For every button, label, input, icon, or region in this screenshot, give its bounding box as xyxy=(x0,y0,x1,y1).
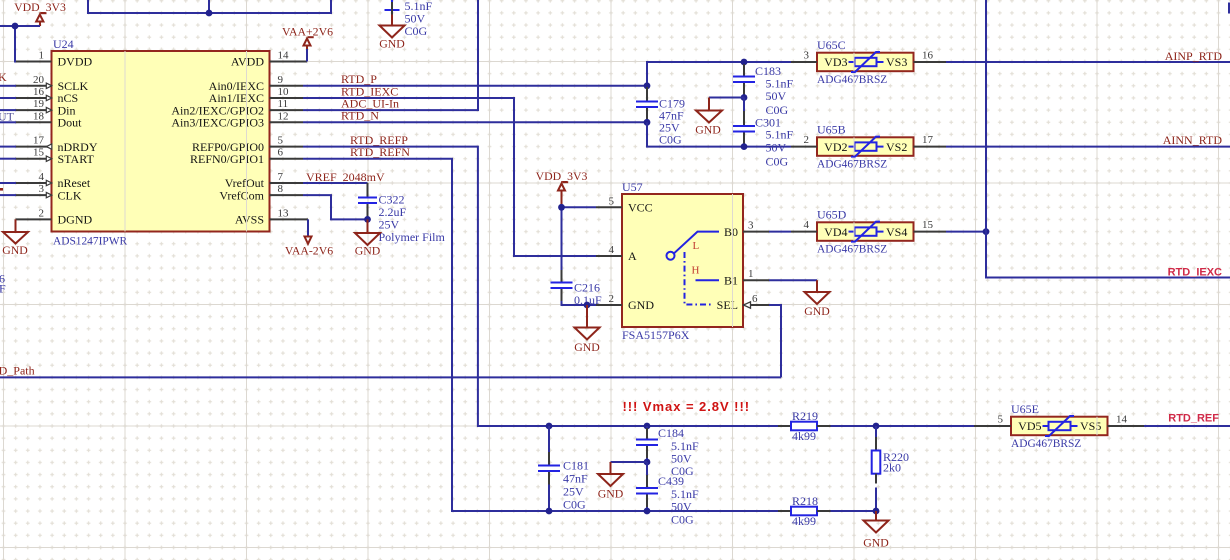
junction C183/C301 midpoint xyxy=(741,94,748,101)
junction RTD_N at C179 xyxy=(644,119,651,126)
svg-text:B1: B1 xyxy=(724,273,738,287)
analog switch U65D ADG467BRSZ xyxy=(804,207,934,255)
svg-text:GND: GND xyxy=(379,37,405,51)
svg-text:5: 5 xyxy=(998,414,1004,426)
svg-text:VS4: VS4 xyxy=(886,225,907,239)
svg-text:15: 15 xyxy=(922,219,934,231)
wire VDD to U57 VCC xyxy=(562,207,597,281)
svg-text:GND: GND xyxy=(574,340,600,354)
svg-text:C0G: C0G xyxy=(563,498,586,512)
svg-text:VS2: VS2 xyxy=(886,140,907,154)
pin wires U65D xyxy=(791,231,946,233)
svg-text:12: 12 xyxy=(278,110,289,122)
junction C181 bottom xyxy=(546,508,553,515)
wire R219 to U65E xyxy=(831,425,975,427)
svg-text:2k0: 2k0 xyxy=(883,461,901,475)
wire RTD_Path xyxy=(0,376,781,378)
svg-text:VDD_3V3: VDD_3V3 xyxy=(536,169,588,183)
junction on VDD_3V3 wire xyxy=(12,23,19,30)
wire fragment top right corner xyxy=(1228,3,1230,14)
analog switch U65C ADG467BRSZ xyxy=(804,38,934,86)
svg-text:C439: C439 xyxy=(658,474,684,488)
svg-text:REFN0/GPIO1: REFN0/GPIO1 xyxy=(190,152,264,166)
junction C439 bottom xyxy=(644,508,651,515)
ground GND (U57 B1) xyxy=(804,280,830,318)
svg-text:RTD_N: RTD_N xyxy=(341,109,379,123)
wire RTD_P up to U65C xyxy=(647,62,791,86)
svg-text:C0G: C0G xyxy=(671,513,694,527)
resistor R220 2k0 xyxy=(872,426,909,511)
svg-text:VAA-2V6: VAA-2V6 xyxy=(285,244,333,258)
svg-text:UT: UT xyxy=(0,110,15,124)
svg-text:R218: R218 xyxy=(792,494,818,508)
svg-text:13: 13 xyxy=(278,207,290,219)
svg-text:20: 20 xyxy=(33,74,45,86)
ground GND (C322) xyxy=(355,219,381,257)
svg-text:GND: GND xyxy=(598,487,624,501)
pin wires U65E xyxy=(974,425,1144,427)
junction RTD_IEXC column xyxy=(983,228,990,235)
capacitor C216 0.1uF xyxy=(551,270,603,307)
junction R219/R220 xyxy=(873,423,880,430)
svg-text:5: 5 xyxy=(609,195,615,207)
svg-text:3: 3 xyxy=(804,50,810,62)
svg-text:6: 6 xyxy=(278,147,284,159)
svg-text:C184: C184 xyxy=(658,426,684,440)
svg-text:ADS1247IPWR: ADS1247IPWR xyxy=(53,236,127,248)
svg-text:K: K xyxy=(0,70,7,84)
svg-text:VCC: VCC xyxy=(628,201,653,215)
svg-text:C181: C181 xyxy=(563,459,589,473)
svg-text:8: 8 xyxy=(278,183,284,195)
svg-text:GND: GND xyxy=(2,243,28,257)
pin wires U65B xyxy=(791,146,946,148)
svg-text:2: 2 xyxy=(609,293,615,305)
svg-text:GND: GND xyxy=(628,298,654,312)
junction R218/R220/GND xyxy=(873,508,880,515)
svg-text:VD5: VD5 xyxy=(1018,419,1041,433)
junction at C183 top xyxy=(741,59,748,66)
svg-text:U24: U24 xyxy=(53,37,74,51)
wire U57 B1 to ground xyxy=(769,279,817,281)
svg-text:9: 9 xyxy=(278,74,284,86)
svg-text:Polymer Film: Polymer Film xyxy=(379,230,446,244)
wire RTD_P xyxy=(303,85,647,87)
wire RTD_N xyxy=(303,121,647,123)
svg-text:SEL: SEL xyxy=(717,298,738,312)
wire R218 to R220 xyxy=(831,510,877,512)
svg-text:GND: GND xyxy=(355,244,381,258)
junction C184/C439 midpoint xyxy=(644,459,651,466)
svg-text:3: 3 xyxy=(748,220,754,232)
IC U24 ADS1247IPWR body xyxy=(16,37,309,248)
svg-text:5.1nF: 5.1nF xyxy=(766,128,794,142)
svg-text:25V: 25V xyxy=(563,485,584,499)
svg-text:GND: GND xyxy=(695,123,721,137)
capacitor C439 5.1nF xyxy=(636,462,699,527)
svg-text:14: 14 xyxy=(278,50,290,62)
wire AINN_RTD xyxy=(946,146,1230,148)
svg-text:6: 6 xyxy=(752,293,758,305)
svg-text:1: 1 xyxy=(748,268,754,280)
wire VrefOut to C322 xyxy=(303,182,368,184)
svg-text:50V: 50V xyxy=(766,89,787,103)
svg-text:GND: GND xyxy=(863,536,889,550)
wire C183 branch xyxy=(743,62,745,76)
junction RTD_P at C179 xyxy=(644,82,651,89)
junction on top wire xyxy=(206,10,213,17)
capacitor (cropped, 5.1nF 50V C0G) xyxy=(385,0,433,38)
svg-text:16: 16 xyxy=(922,50,934,62)
svg-text:VDD_3V3: VDD_3V3 xyxy=(14,0,66,14)
svg-text:3: 3 xyxy=(39,183,45,195)
svg-text:H: H xyxy=(692,265,700,277)
junction C184 top xyxy=(644,423,651,430)
svg-text:U65D: U65D xyxy=(817,207,847,221)
svg-text:VD4: VD4 xyxy=(824,225,847,239)
svg-text:R219: R219 xyxy=(792,409,818,423)
svg-text:1: 1 xyxy=(39,50,45,62)
svg-text:15: 15 xyxy=(33,147,45,159)
junction at C322 bottom xyxy=(364,216,371,223)
svg-text:11: 11 xyxy=(278,98,289,110)
svg-text:AINN_RTD: AINN_RTD xyxy=(1163,133,1223,147)
svg-text:C0G: C0G xyxy=(405,24,428,38)
svg-text:Ain3/IEXC/GPIO3: Ain3/IEXC/GPIO3 xyxy=(171,116,264,130)
svg-text:L: L xyxy=(693,240,700,252)
svg-text:DVDD: DVDD xyxy=(58,55,93,69)
svg-text:17: 17 xyxy=(33,135,45,147)
svg-text:ADG467BRSZ: ADG467BRSZ xyxy=(817,158,887,170)
power port VAA+2V6 xyxy=(282,25,333,62)
svg-text:5: 5 xyxy=(278,135,284,147)
IC U57 FSA5157P6X body xyxy=(596,180,769,342)
wire top net (cropped U shape) xyxy=(88,0,331,13)
svg-text:4: 4 xyxy=(804,219,810,231)
pin wires U65C xyxy=(791,61,946,63)
svg-text:16: 16 xyxy=(33,86,45,98)
wire RTD_IEXC to U57 A xyxy=(303,98,599,256)
svg-text:START: START xyxy=(58,152,95,166)
wire ADC_UI-In xyxy=(303,0,478,110)
svg-text:AVSS: AVSS xyxy=(235,213,264,227)
svg-text:AVDD: AVDD xyxy=(231,55,264,69)
capacitor C179 47nF xyxy=(636,87,685,147)
svg-text:U65B: U65B xyxy=(817,122,846,136)
wire RTD_N down to U65B xyxy=(647,122,791,146)
svg-text:ADG467BRSZ: ADG467BRSZ xyxy=(817,243,887,255)
junction C301 bottom xyxy=(741,143,748,150)
svg-text:4: 4 xyxy=(609,244,615,256)
capacitor C181 47nF xyxy=(538,426,589,512)
svg-text:FSA5157P6X: FSA5157P6X xyxy=(622,328,690,342)
junction U57 GND xyxy=(584,302,591,309)
svg-text:B0: B0 xyxy=(724,225,738,239)
wire U57 SEL to RTD_Path xyxy=(769,305,781,377)
power port VAA-2V6 xyxy=(285,219,333,257)
capacitor C184 5.1nF xyxy=(636,426,699,478)
power port VDD_3V3 (U57) xyxy=(536,169,588,207)
svg-text:VS3: VS3 xyxy=(886,55,907,69)
ground GND (top capacitor) xyxy=(379,15,405,51)
ground GND (C184/C439) xyxy=(598,462,647,501)
wire stubs to U24 left pins xyxy=(0,86,16,195)
svg-text:VD2: VD2 xyxy=(824,140,847,154)
junction C181 top xyxy=(546,423,553,430)
svg-text:14: 14 xyxy=(1116,414,1128,426)
svg-text:4k99: 4k99 xyxy=(792,514,816,528)
svg-text:RTD_IEXC: RTD_IEXC xyxy=(1168,267,1222,279)
svg-text:U65E: U65E xyxy=(1011,402,1039,416)
svg-text:VrefCom: VrefCom xyxy=(219,188,264,202)
wire RTD_REFN down xyxy=(303,159,778,511)
capacitor C322 2.2uF xyxy=(358,183,446,244)
svg-text:A: A xyxy=(628,249,637,263)
svg-text:ADG467BRSZ: ADG467BRSZ xyxy=(1011,438,1081,450)
capacitor C301 5.1nF xyxy=(733,98,794,169)
ground GND (reference divider) xyxy=(863,511,889,550)
wire RTD_REFP down to reference chain xyxy=(303,147,778,426)
svg-text:18: 18 xyxy=(33,110,45,122)
resistor R218 4k99 xyxy=(778,494,831,528)
svg-text:50V: 50V xyxy=(671,500,692,514)
svg-text:RTD_REFN: RTD_REFN xyxy=(350,145,410,159)
analog switch U65E ADG467BRSZ xyxy=(998,402,1128,450)
wire RTD_REF xyxy=(1144,425,1230,427)
svg-text:F: F xyxy=(0,282,6,296)
svg-text:CLK: CLK xyxy=(58,188,82,202)
svg-text:ADG467BRSZ: ADG467BRSZ xyxy=(817,74,887,86)
wire VDD_3V3 to DVDD xyxy=(0,26,40,62)
net label fragment near CLK xyxy=(0,188,3,191)
power port VDD_3V3 (top left) xyxy=(14,0,66,26)
svg-text:!!! Vmax = 2.8V !!!: !!! Vmax = 2.8V !!! xyxy=(623,399,751,414)
svg-text:4k99: 4k99 xyxy=(792,429,816,443)
svg-text:2: 2 xyxy=(39,207,45,219)
svg-text:10: 10 xyxy=(278,86,290,98)
wire U57 B0 to U65D xyxy=(769,231,791,233)
wire AINP_RTD xyxy=(946,61,1230,63)
svg-text:DGND: DGND xyxy=(58,213,93,227)
svg-text:VD3: VD3 xyxy=(824,55,847,69)
analog switch U65B ADG467BRSZ xyxy=(804,122,934,170)
capacitor C183 5.1nF xyxy=(733,64,794,117)
wire VrefCom to C322 xyxy=(303,195,368,219)
svg-text:RTD_Path: RTD_Path xyxy=(0,364,35,378)
wire RTD_IEXC vertical and out xyxy=(986,0,1230,278)
ground GND (U24 DGND) xyxy=(2,219,28,257)
svg-text:4: 4 xyxy=(39,171,45,183)
svg-text:17: 17 xyxy=(922,134,934,146)
junction VDD/VCC xyxy=(558,204,565,211)
ground GND (C216/U57) xyxy=(574,305,600,354)
ground GND (C183/C301) xyxy=(695,98,744,137)
svg-text:RTD_REF: RTD_REF xyxy=(1168,413,1219,425)
svg-text:VS5: VS5 xyxy=(1080,419,1101,433)
svg-text:7: 7 xyxy=(278,171,284,183)
resistor R219 4k99 xyxy=(778,409,831,443)
svg-text:C0G: C0G xyxy=(659,133,682,147)
wire U65D out to RTD_IEXC column xyxy=(946,231,986,233)
svg-text:U57: U57 xyxy=(622,180,643,194)
svg-text:47nF: 47nF xyxy=(563,472,588,486)
svg-text:2: 2 xyxy=(804,134,810,146)
svg-text:AINP_RTD: AINP_RTD xyxy=(1165,49,1223,63)
svg-text:50V: 50V xyxy=(766,141,787,155)
svg-text:GND: GND xyxy=(804,304,830,318)
svg-text:VREF_2048mV: VREF_2048mV xyxy=(306,170,385,184)
svg-text:VAA+2V6: VAA+2V6 xyxy=(282,25,333,39)
svg-text:C0G: C0G xyxy=(766,155,789,169)
svg-text:Dout: Dout xyxy=(58,116,83,130)
svg-text:19: 19 xyxy=(33,98,45,110)
svg-text:U65C: U65C xyxy=(817,38,846,52)
